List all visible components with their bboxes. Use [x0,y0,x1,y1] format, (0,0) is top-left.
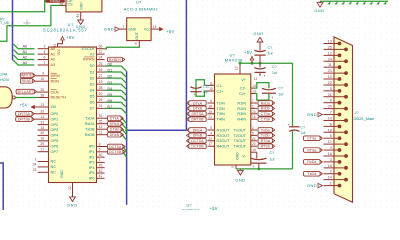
svg-text:DRxA: DRxA [193,128,203,132]
DB25 pin 5 stub [324,137,340,139]
svg-text:DCTSA: DCTSA [109,145,122,149]
UART pin 1 stub [97,161,105,163]
net label DRTSA [16,111,32,116]
svg-text:22: 22 [328,81,332,85]
svg-text:24: 24 [252,137,256,141]
svg-text:+5V: +5V [210,206,218,210]
U3 GND pin [80,12,82,20]
MAX238 GND pin [235,165,237,169]
svg-text:R2OUT: R2OUT [217,134,231,138]
svg-text:5: 5 [99,148,101,152]
capacitor CE [289,126,299,128]
net label DTxA [108,116,122,121]
svg-text:R2IN: R2IN [237,107,246,111]
ground flag osc [115,27,120,31]
UART pin 5 stub [97,151,108,153]
svg-text:WRITE: WRITE [21,74,33,78]
svg-text:D7: D7 [108,105,113,109]
DB25 pin 10 contact [338,77,342,81]
net label RxDa (DB25) [304,160,321,165]
wire right rail down [292,63,294,127]
net label DTxA (MAX) [189,101,206,106]
net label DTxB (MAX) [189,106,206,111]
svg-text:30: 30 [40,131,44,135]
DB25 pin 14 contact [344,178,348,182]
svg-text:7: 7 [252,99,254,103]
UART pin OP2 (31) stub [38,124,49,126]
net label DCTSB [108,150,123,155]
svg-text:OP1: OP1 [51,117,59,121]
net label RTSa (MAX right) [258,139,272,144]
UART pin 35 stub [97,123,108,125]
capacitor C4 (V-) [251,158,266,160]
DB25 pin 21 contact [344,95,348,99]
MAX238 pin 7 stub [251,102,257,104]
svg-text:D4: D4 [90,88,95,92]
wire D3 [105,83,122,85]
net label DCTSB (MAX) [189,144,206,149]
svg-text:RDN: RDN [51,79,59,83]
svg-text:V+: V+ [241,78,247,82]
bus entry D5 [121,96,126,101]
DB25 pin 8 contact [338,101,342,105]
net label DCTSA [108,144,123,149]
svg-text:1uf: 1uf [278,93,283,97]
net label RXRDY [108,57,123,62]
svg-text:A3: A3 [51,63,56,67]
MAX238 V+ pin [239,63,241,74]
svg-text:24: 24 [328,57,332,61]
svg-text:+5V: +5V [20,102,28,107]
svg-text:1uf: 1uf [270,158,275,162]
svg-text:GND: GND [236,152,240,160]
UART pin 16 stub [97,71,105,73]
MAX238 pin 22 stub [208,140,215,142]
ground UART [70,197,76,202]
svg-text:11: 11 [254,77,258,81]
svg-text:C2-: C2- [240,86,247,90]
MAX238 pin 20 stub [251,145,257,147]
net label TxDa (MAX right) [258,128,272,133]
wire bottom rail [236,168,293,170]
svg-text:A2: A2 [51,58,56,62]
net label DRxA [108,121,122,126]
UART pin 13 stub [97,128,108,130]
DB25 pin 6 contact [338,124,342,128]
MAX238 C1- stub [204,84,214,86]
svg-text:T1OUT: T1OUT [234,128,247,132]
svg-text:19: 19 [328,116,332,120]
svg-text:18: 18 [328,128,332,132]
svg-text:22: 22 [208,137,212,141]
UART pin NC (1) stub [38,161,49,163]
UART pin A0 (2) stub [38,48,49,50]
svg-text:23: 23 [328,69,332,73]
svg-text:U?: U? [68,22,75,27]
bus entry A2 [13,55,18,60]
svg-text:19: 19 [208,110,212,114]
svg-text:I/M: I/M [51,105,56,109]
svg-text:1: 1 [35,157,37,161]
DB25 pin 24 contact [344,59,348,63]
svg-text:29: 29 [40,142,44,146]
svg-text:TxDa: TxDa [308,172,317,176]
NAND output bubble [12,96,15,99]
capacitor C1 wiring [196,80,204,97]
ground flag DB25 pin1 [318,183,323,187]
origin cross [24,20,31,27]
svg-text:10: 10 [209,87,213,91]
MAX238 pin 4 stub [208,134,215,136]
svg-text:RTSa: RTSa [307,148,316,152]
svg-text:7: 7 [330,111,332,115]
svg-text:C1+: C1+ [217,89,225,93]
memory IC U3 (cut) [66,0,102,12]
svg-text:NC: NC [51,160,57,164]
svg-text:READ: READ [22,79,32,83]
ground flag DB25 pin7 [318,112,323,116]
svg-text:INTRN: INTRN [83,58,95,62]
svg-text:31: 31 [40,120,44,124]
UART VCC pin +5V [58,40,63,47]
UART pin CEN (35) stub [38,91,49,93]
svg-text:28: 28 [59,3,63,7]
bus UART data vertical [126,71,128,204]
bus entry DRxB [122,135,127,140]
UART pin RESETH (38) stub [38,96,49,98]
junction V+ [239,62,242,65]
UART pin OP1 (14) stub [38,118,49,120]
net label TxDa (DB25) [304,171,321,176]
DB25 pin 18 stub [324,131,347,133]
net label DRxA (MAX) [189,128,206,133]
UART pin 11 stub [97,134,108,136]
DB25 pin 3 contact [338,160,342,164]
net label READ2 [20,79,32,84]
UART pin 20 stub [97,95,105,97]
svg-text:MAX238: MAX238 [225,57,243,62]
net label TxDb (MAX right) [258,133,272,138]
svg-text:13: 13 [328,40,332,44]
svg-text:21: 21 [99,104,103,108]
wire osc to X1/CLK [105,46,140,49]
svg-text:23: 23 [33,168,37,172]
svg-text:+5V: +5V [244,50,252,55]
MAX238 pin 16 stub [251,118,257,120]
wire D2 [105,77,122,79]
bus ADDR/DATA left [12,0,14,61]
svg-text:5: 5 [210,126,212,130]
UART pin 19 stub [97,83,105,85]
svg-text:T1IN: T1IN [217,101,225,105]
svg-text:R3IN: R3IN [237,112,246,116]
svg-text:19: 19 [99,80,103,84]
svg-text:TxDA: TxDA [85,116,95,120]
net label DTxB [108,127,122,132]
wire to READ label [0,0,45,12]
UART pin 41 stub [97,177,105,179]
svg-text:SC28L92A1A,557: SC28L92A1A,557 [43,27,88,32]
svg-text:RESETH: RESETH [51,96,67,100]
svg-text:GND: GND [307,183,317,188]
svg-text:20: 20 [99,92,103,96]
svg-text:IP1: IP1 [89,150,95,154]
wire right rail down 2 [292,131,294,169]
wire D4 [105,89,122,91]
svg-text:26: 26 [99,62,103,66]
svg-text:28: 28 [99,86,103,90]
bus entry DTxB [122,129,127,134]
svg-text:DB25_Male: DB25_Male [354,116,376,121]
wire to CS pin [0,5,62,41]
UART pin RDN (10) stub [38,80,49,82]
wire +5V rail [240,62,293,64]
DB25 pin 17 contact [344,142,348,146]
svg-text:1: 1 [252,104,254,108]
svg-text:17: 17 [40,147,44,151]
svg-text:1uf: 1uf [300,131,305,135]
svg-text:RxDa: RxDa [307,160,316,164]
osc OUT pin [138,41,140,47]
svg-text:6: 6 [44,55,46,59]
svg-text:OP6: OP6 [51,144,59,148]
svg-text:19: 19 [76,14,80,18]
svg-text:3: 3 [330,158,332,162]
DB25 pin 20 contact [344,107,348,111]
MAX238 pin 23 stub [251,113,257,115]
wire D0 [105,65,122,67]
svg-text:T_U5: T_U5 [0,21,9,25]
net label DRTSB (MAX) [189,117,206,122]
bus entry D2 [121,78,126,83]
svg-text:13: 13 [99,125,103,129]
svg-text:NC: NC [51,165,57,169]
bus horizontal link [127,129,187,131]
ground (up) above capA [257,37,263,42]
wire A0 [18,48,34,50]
svg-text:17: 17 [208,142,212,146]
capacitor C1 [190,87,201,89]
net label CTSb (MAX right) [258,117,272,122]
svg-text:GND: GND [235,179,245,183]
svg-text:6: 6 [330,122,332,126]
net label DRTSB [16,117,32,122]
DB25 pin 12 stub [324,54,340,56]
svg-text:37: 37 [99,50,103,54]
svg-text:40: 40 [99,153,103,157]
svg-text:RxDb: RxDb [261,107,270,111]
svg-text:1: 1 [330,182,332,186]
net label DRTSA (MAX) [189,112,206,117]
bus bottom-left corner [0,163,3,210]
UART pin OP3 (15) stub [38,129,49,131]
net label WRITE [20,73,33,78]
svg-text:C1-: C1- [217,84,224,88]
UART pin OP6 (29) stub [38,145,49,147]
UART pin OP4 (30) stub [38,134,49,136]
UART pin OP5 (16) stub [38,140,49,142]
DB25 pin 16 contact [344,154,348,158]
svg-text:Vcc: Vcc [144,27,150,31]
UART pin OP0 (32) stub [38,113,49,115]
capA lead bottom [259,55,261,63]
svg-text:8: 8 [99,142,101,146]
DB25 pin 11 stub [324,66,340,68]
UART pin OP7 (17) stub [38,151,49,153]
UART pin NC (23) stub [38,171,49,173]
MAX238 pin 24 stub [251,140,257,142]
+5V supply arrow [251,60,253,63]
svg-text:IP0: IP0 [89,145,95,149]
svg-text:TxDb: TxDb [261,134,270,138]
MAX238 C2+ stub [251,93,255,95]
junction capA [259,62,262,65]
svg-text:1/4A: 1/4A [0,73,8,77]
DB25 pin 3 stub [324,161,340,163]
svg-text:TxDB: TxDB [85,127,95,131]
svg-text:TxDa: TxDa [261,128,270,132]
U3 CS pin stub [62,4,67,6]
MAX238 pin 1 stub [251,107,257,109]
MAX238 V- stub [251,151,257,153]
DB25 pin 23 stub [324,72,347,74]
UART pin A3 (7) stub [38,64,49,66]
svg-text:16: 16 [40,137,44,141]
svg-text:GND: GND [128,27,136,31]
svg-text:D3: D3 [108,81,113,85]
svg-text:D2: D2 [108,75,113,79]
DB25 pin 8 stub [324,102,340,104]
wire D6 [105,101,122,103]
DB25 pin 17 stub [324,143,347,145]
svg-text:GND: GND [67,204,78,208]
svg-text:GND: GND [79,2,83,10]
wire A3 [18,64,34,66]
svg-text:C12: C12 [203,85,210,89]
svg-text:GND: GND [60,170,64,178]
DB25 pin 1 contact [338,184,342,188]
svg-text:1uf: 1uf [203,90,208,94]
UART pin 33 stub [97,117,108,119]
capA lead top [259,42,261,51]
svg-text:RxDA: RxDA [85,122,95,126]
DB25 pin 13 stub [324,43,340,45]
svg-text:33: 33 [99,114,103,118]
MAX238 pin 18 stub [208,107,215,109]
bus entry D6 [121,102,126,107]
svg-text:C2+: C2+ [239,92,247,96]
UART pin A1 (4) stub [38,53,49,55]
UART pin 28 stub [97,89,105,91]
svg-text:10: 10 [40,77,44,81]
svg-text:36: 36 [99,45,103,49]
svg-text:2: 2 [330,170,332,174]
svg-text:4: 4 [44,50,46,54]
svg-text:GND: GND [307,112,317,117]
DB25 pin 13 contact [338,42,342,46]
svg-text:RTSa: RTSa [261,139,270,143]
svg-text:DCTSB: DCTSB [109,150,122,154]
svg-text:DRTSA: DRTSA [18,112,31,116]
wire D5 [105,95,122,97]
DB25 pin 16 stub [324,155,347,157]
UART pin NC (34) stub [38,166,49,168]
svg-text:12: 12 [328,51,332,55]
svg-text:D1: D1 [108,69,113,73]
UART body [49,47,97,183]
svg-text:16: 16 [99,68,103,72]
svg-text:15: 15 [328,164,332,168]
svg-text:DCTSA: DCTSA [191,139,204,143]
DB25 pin 24 stub [324,60,347,62]
svg-text:11: 11 [99,131,103,135]
junction C4 [257,168,260,171]
svg-text:20: 20 [328,105,332,109]
svg-text:2: 2 [252,126,254,130]
svg-text:X1/CLK: X1/CLK [81,47,95,51]
svg-text:14: 14 [252,84,256,88]
bus entry A1 [13,50,18,55]
DB25 pin 7 contact [338,113,342,117]
wire D7 [105,107,122,109]
svg-text:T3OUT: T3OUT [234,139,247,143]
DB25 pin 12 contact [338,53,342,57]
svg-text:A0: A0 [23,45,27,49]
DB25 pin 22 contact [344,83,348,87]
svg-text:T4IN: T4IN [217,118,225,122]
net label CTSa (DB25) [304,136,321,141]
net label RTSb (MAX right) [258,144,272,149]
DB25 pin 19 stub [324,119,347,121]
svg-text:24: 24 [99,55,103,59]
net label SELUART [16,89,34,94]
svg-text:41: 41 [99,174,103,178]
svg-text:GND: GND [104,27,114,32]
svg-text:8: 8 [330,99,332,103]
svg-text:D5: D5 [108,93,113,97]
svg-text:IP4: IP4 [89,166,95,170]
svg-text:D6: D6 [108,99,113,103]
DB25 pin 6 stub [324,125,340,127]
svg-text:T4OUT: T4OUT [234,145,247,149]
osc pin 14 stub [151,28,159,30]
MAX238 pin 6 stub [208,102,215,104]
svg-text:+5V: +5V [166,29,174,34]
svg-text:15: 15 [252,148,256,152]
bus entry D3 [121,84,126,89]
svg-text:DTxB: DTxB [110,128,120,132]
bus right vertical [185,0,187,130]
DB25 pin 2 stub [324,173,340,175]
net label DCTSA (MAX) [189,139,206,144]
svg-text:OP3: OP3 [51,128,59,132]
UART pin 40 stub [97,156,105,158]
DB25 pin 9 contact [338,89,342,93]
svg-text:R4OUT: R4OUT [217,145,231,149]
net label CTSa (MAX right) [258,112,272,117]
DB25 pin 14 stub [324,179,347,181]
UART pin 8 stub [97,146,108,148]
net label DRxB [108,132,122,137]
DB25 pin 25 contact [344,48,348,52]
capacitor CB [254,68,265,70]
svg-text:X2: X2 [90,52,95,56]
capacitor CA [254,50,265,52]
svg-text:DRxA: DRxA [110,122,120,126]
svg-text:OP7: OP7 [51,150,59,154]
svg-text:DTxB: DTxB [193,107,203,111]
svg-text:T3IN: T3IN [217,112,225,116]
